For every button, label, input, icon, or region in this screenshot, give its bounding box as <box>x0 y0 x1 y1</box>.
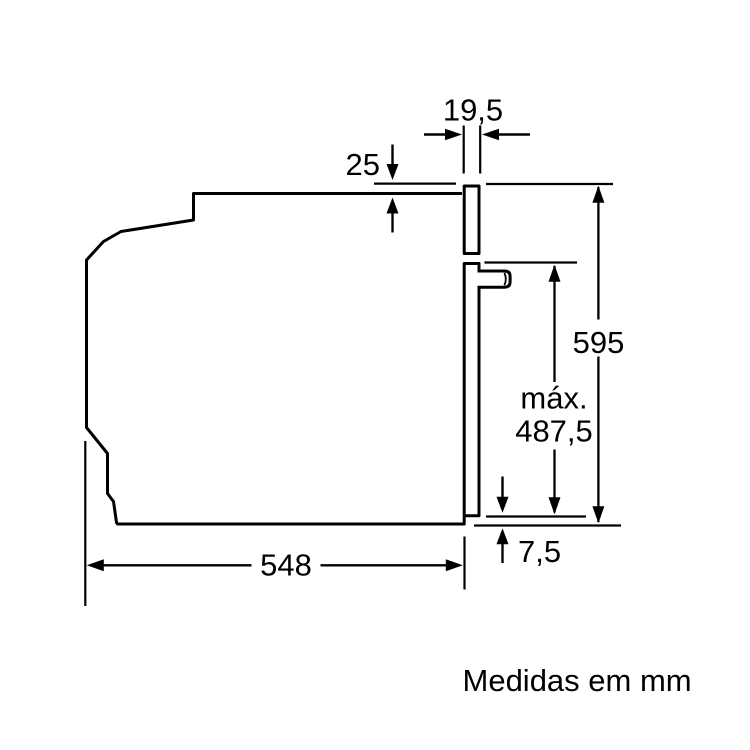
oven door lower section <box>464 264 479 516</box>
dim 25 extension line <box>374 183 456 185</box>
dim max 487,5 top extension line <box>485 261 578 263</box>
svg-text:548: 548 <box>260 548 312 583</box>
dim 595 vertical line <box>597 187 599 522</box>
dim 7,5 down arrow <box>501 477 503 498</box>
svg-text:Medidas em mm: Medidas em mm <box>463 663 692 698</box>
oven door upper section <box>464 186 479 254</box>
svg-text:7,5: 7,5 <box>518 534 561 569</box>
dim 595 bottom extension line <box>474 524 621 526</box>
dim max 487,5 vertical line <box>553 266 555 513</box>
dim max 487,5 bottom extension line <box>486 515 586 517</box>
svg-text:595: 595 <box>573 325 625 360</box>
dim 595 top extension line <box>486 183 613 185</box>
dim 595 bottom arrowhead <box>592 506 604 523</box>
dim 548 line right segment <box>321 564 447 566</box>
oven body outline <box>87 194 465 525</box>
dim 25 up arrow <box>387 198 399 214</box>
dim 548 right arrowhead <box>446 559 463 571</box>
dim 548 line left segment <box>103 564 252 566</box>
dim 548 left extension line <box>84 441 86 606</box>
svg-text:25: 25 <box>346 147 380 182</box>
dim max 487,5 bottom arrowhead <box>549 497 561 514</box>
dim 19,5 extension line right <box>479 126 481 174</box>
dim 19,5 right arrow <box>496 133 530 135</box>
handle cap inner line <box>504 273 505 285</box>
svg-text:19,5: 19,5 <box>443 93 503 128</box>
dim 19,5 extension line left <box>463 126 465 174</box>
svg-text:máx.: máx. <box>520 381 587 416</box>
door handle <box>478 271 511 287</box>
dim 595 top arrowhead <box>592 186 604 203</box>
dim max 487,5 top arrowhead <box>549 265 561 282</box>
dim 25 down arrow <box>391 145 393 168</box>
svg-text:487,5: 487,5 <box>515 414 593 449</box>
dim 7,5 up arrow <box>497 528 509 544</box>
dim 548 right extension line <box>463 537 465 590</box>
dim 19,5 left arrow <box>424 133 448 135</box>
dim 548 left arrowhead <box>87 559 104 571</box>
